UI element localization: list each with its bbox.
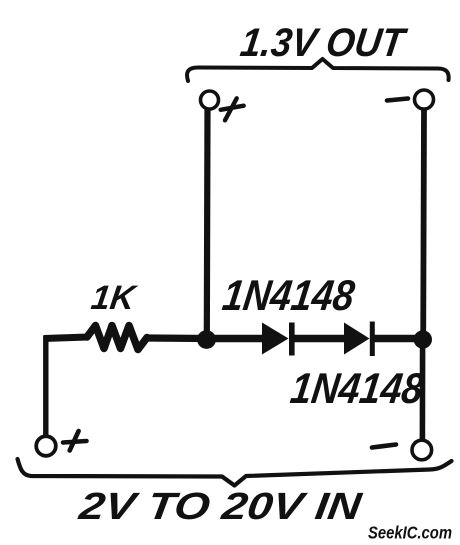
- diode D1 triangle: [262, 323, 289, 355]
- terminal OUT+: [201, 91, 219, 109]
- wire from OUT+ down to node A: [204, 109, 211, 338]
- svg-text:1N4148: 1N4148: [220, 272, 358, 320]
- minus sign output: [387, 99, 408, 101]
- wire node A to diode D1: [207, 335, 263, 343]
- terminal IN+: [36, 436, 56, 456]
- diode D2 triangle: [344, 323, 370, 355]
- wire left horizontal into resistor: [44, 337, 89, 339]
- resistor R1 1K zigzag: [87, 326, 147, 350]
- junction node B: [414, 330, 432, 348]
- wire left vertical from resistor corner down to IN+ terminal: [43, 336, 48, 436]
- svg-text:SeekIC.com: SeekIC.com: [368, 523, 452, 543]
- diode D2 cathode bar: [370, 322, 375, 357]
- junction node A: [197, 330, 216, 349]
- terminal IN-: [412, 440, 432, 460]
- wire diode D2 to node B: [372, 335, 426, 343]
- minus sign input: [372, 445, 396, 448]
- plus sign input: [63, 431, 87, 451]
- svg-text:1K: 1K: [89, 279, 140, 317]
- wire node B down to IN- terminal: [420, 339, 426, 440]
- plus sign output: [221, 98, 244, 120]
- wire from OUT- down to node B: [420, 110, 427, 340]
- brace output: [187, 59, 449, 81]
- terminal OUT-: [415, 90, 434, 109]
- svg-text:2V TO 20V IN: 2V TO 20V IN: [76, 485, 366, 528]
- brace input: [18, 459, 452, 486]
- svg-text:1N4148: 1N4148: [288, 365, 427, 413]
- diode D1 cathode bar: [289, 323, 295, 356]
- wire diode D1 to diode D2: [292, 335, 345, 343]
- wire resistor to node A: [146, 334, 210, 342]
